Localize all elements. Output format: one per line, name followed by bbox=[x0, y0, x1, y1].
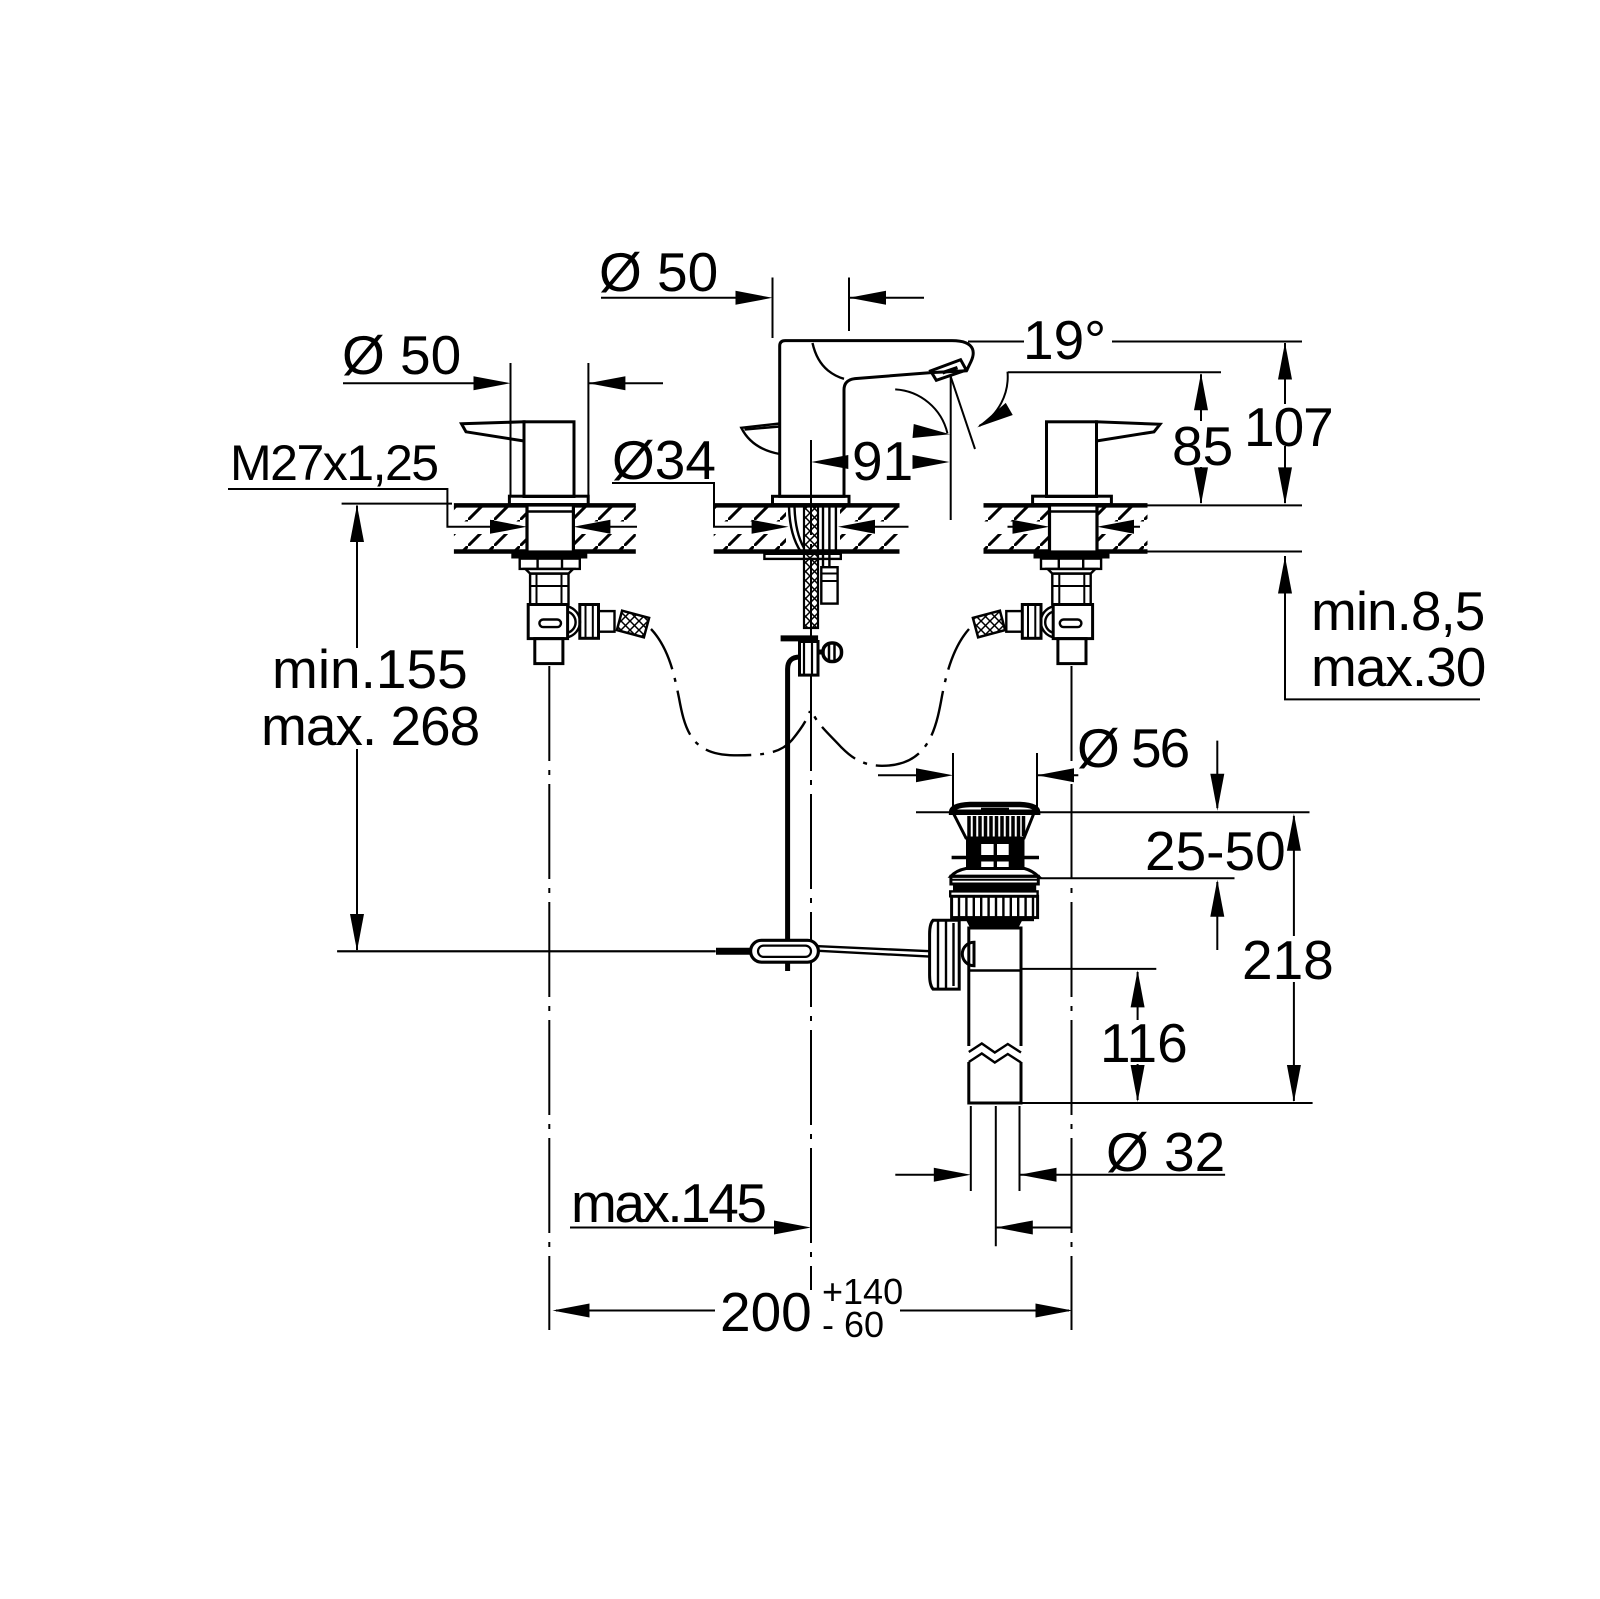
drain top reference line bbox=[916, 811, 1310, 813]
19° angle arc left with arrow bbox=[895, 389, 950, 441]
dimension min.8,5/max.30 corner leader bbox=[1278, 556, 1480, 699]
left valve neck bbox=[530, 574, 568, 605]
svg-text:max.30: max.30 bbox=[1311, 636, 1485, 698]
left valve handle grip bbox=[524, 422, 574, 497]
drain pop-up cap bbox=[952, 805, 1038, 813]
dimension max.145 leader and arrows bbox=[570, 1221, 1071, 1235]
drain knurled locknut bbox=[952, 896, 1038, 920]
svg-text:91: 91 bbox=[852, 430, 913, 492]
leader Ø34 with hole arrows bbox=[612, 483, 909, 534]
drain O-ring (black band) bbox=[953, 884, 1036, 891]
right valve bottom stub bbox=[1058, 639, 1086, 664]
dimension Ø56: lines, arrows, extension lines bbox=[878, 753, 1078, 810]
85 reference line B (handle top level) bbox=[1008, 371, 1221, 373]
drain gasket taper (black) bbox=[966, 920, 1022, 929]
19° reference line A (faucet top level) bbox=[968, 341, 1302, 343]
right valve escutcheon flange bbox=[1033, 496, 1112, 504]
horizontal lever rod reference line bbox=[337, 950, 715, 952]
svg-text:Ø 50: Ø 50 bbox=[342, 324, 461, 386]
drain bell shoulder bbox=[951, 869, 1038, 877]
dimension 91: arrows beside text bbox=[811, 455, 949, 469]
right valve shank through deck bbox=[1050, 505, 1098, 552]
drain tailpipe bottom edge bbox=[969, 1102, 1021, 1105]
right valve handle blade bbox=[1097, 422, 1161, 441]
pop-up pull rod bbox=[788, 657, 800, 971]
svg-text:107: 107 bbox=[1244, 396, 1333, 458]
drain side coupling nut bbox=[930, 920, 960, 989]
countertop deck right segment (hatched) bbox=[982, 505, 1149, 551]
faucet body outline bbox=[780, 341, 974, 497]
faucet supply hose in deck hole (braided) bbox=[789, 506, 836, 629]
drain body tube bbox=[969, 928, 1021, 1103]
right valve thread arrows bbox=[1008, 520, 1141, 534]
svg-text:19°: 19° bbox=[1023, 309, 1106, 371]
dimension 218 vertical bbox=[1287, 814, 1301, 1102]
dimension 116 vertical bbox=[1131, 970, 1145, 1102]
svg-text:218: 218 bbox=[1242, 929, 1334, 991]
25-50 bottom reference line bbox=[1038, 877, 1235, 879]
left valve bottom stub bbox=[535, 639, 563, 664]
dimension Ø32: lines, arrows, extension lines bbox=[895, 1106, 1225, 1191]
dimension Ø50 center faucet: lines, arrows, extension lines bbox=[601, 278, 924, 339]
drain ball joint bbox=[962, 942, 974, 965]
right flexible hose (dash-dot curve) bbox=[812, 629, 969, 766]
drain tube break symbol bbox=[967, 1044, 1023, 1063]
leader M27x1,25 with thread arrows bbox=[228, 489, 637, 534]
116 top reference line bbox=[1021, 968, 1156, 970]
faucet mounting washer plate under deck bbox=[764, 554, 840, 559]
spout stream vertical line bbox=[950, 377, 952, 520]
faucet mounting stud and nut bbox=[821, 567, 837, 603]
right valve hose nipple bbox=[1006, 611, 1022, 632]
svg-text:25-50: 25-50 bbox=[1145, 820, 1286, 882]
drain grate block bbox=[952, 838, 1039, 869]
spout stream slanted line 19° bbox=[951, 377, 975, 449]
dimension min.155/max.268 vertical bbox=[337, 504, 715, 952]
right valve neck bbox=[1052, 574, 1090, 605]
left valve axis centerline bbox=[548, 666, 550, 1330]
faucet temperature lever bbox=[741, 424, 779, 455]
svg-text:Ø 32: Ø 32 bbox=[1106, 1121, 1225, 1183]
218/116 bottom reference line bbox=[1021, 1102, 1313, 1104]
left flexible hose (dash-dot curve) bbox=[651, 629, 810, 755]
left valve hose hex fitting bbox=[580, 605, 599, 639]
dimension Ø50 left valve: lines, arrows, extension lines bbox=[343, 363, 663, 495]
svg-text:M27x1,25: M27x1,25 bbox=[230, 435, 438, 491]
svg-text:max.145: max.145 bbox=[571, 1172, 765, 1234]
left valve handle blade bbox=[462, 422, 525, 441]
pull rod clamp thumbscrew bbox=[818, 643, 842, 662]
dimension 107 vertical bbox=[1278, 343, 1292, 505]
right valve elbow to hose bbox=[1041, 606, 1053, 637]
svg-text:max. 268: max. 268 bbox=[261, 695, 479, 757]
dimension 85 vertical bbox=[1194, 373, 1208, 504]
deck bottom surface lines bbox=[454, 549, 1302, 554]
svg-text:116: 116 bbox=[1100, 1012, 1188, 1074]
right valve axis centerline bbox=[1071, 666, 1073, 1330]
svg-text:Ø34: Ø34 bbox=[612, 429, 716, 491]
svg-text:- 60: - 60 bbox=[822, 1304, 884, 1345]
pull rod clamp bracket bbox=[781, 638, 819, 675]
left valve hose nipple bbox=[599, 611, 615, 632]
deck top surface lines bbox=[454, 503, 1302, 508]
svg-text:Ø 50: Ø 50 bbox=[599, 241, 718, 303]
right valve handle grip bbox=[1047, 422, 1097, 497]
drain lever rod to ball joint bbox=[818, 946, 930, 956]
countertop deck left segment (hatched) bbox=[452, 505, 638, 551]
left valve braided hose end bbox=[617, 611, 649, 638]
svg-text:min.8,5: min.8,5 bbox=[1311, 580, 1484, 642]
right valve hose hex fitting bbox=[1022, 605, 1041, 639]
lever rod stub bbox=[716, 948, 751, 955]
left valve shank through deck bbox=[527, 505, 573, 552]
drain centerline below tailpipe bbox=[995, 1106, 997, 1246]
left valve escutcheon flange bbox=[509, 496, 588, 504]
faucet escutcheon flange bbox=[773, 496, 850, 504]
countertop deck center segment (hatched) bbox=[712, 505, 901, 551]
svg-text:min.155: min.155 bbox=[272, 638, 468, 700]
faucet aerator outlet (tilted) bbox=[931, 360, 967, 381]
right valve mounting nut bbox=[1041, 559, 1101, 574]
right valve body bbox=[1053, 605, 1092, 639]
left valve body bbox=[528, 605, 567, 639]
svg-text:Ø 56: Ø 56 bbox=[1077, 717, 1189, 779]
drain lower ring bbox=[950, 891, 1037, 896]
19° angle arc right with arrow bbox=[974, 372, 1013, 434]
left valve gasket under deck bbox=[511, 553, 587, 559]
drain ribbed skirt bbox=[953, 813, 1034, 839]
faucet inner fillet curve bbox=[813, 343, 845, 379]
right valve gasket under deck bbox=[1034, 553, 1110, 559]
left valve mounting nut bbox=[520, 559, 580, 574]
left valve elbow to hose bbox=[568, 606, 580, 637]
dimension 200 +140/-60 bbox=[553, 1304, 1073, 1318]
dimension 25-50 vertical bbox=[1210, 741, 1224, 950]
rod-to-lever link (oval) bbox=[751, 940, 819, 962]
svg-text:200: 200 bbox=[720, 1281, 812, 1343]
right valve braided hose end bbox=[973, 611, 1005, 638]
faucet axis centerline bbox=[810, 440, 812, 1290]
drain upper ring bbox=[951, 876, 1038, 884]
